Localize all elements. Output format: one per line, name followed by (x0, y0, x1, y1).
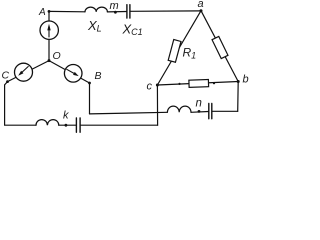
node A junction dot (48, 10, 51, 13)
svg-text:b: b (243, 74, 249, 86)
svg-text:a: a (198, 0, 204, 10)
svg-text:R1: R1 (183, 46, 197, 61)
arrow in source EC (down-left) (18, 67, 28, 76)
wire capacitor k to c riser (81, 124, 158, 126)
triangle side a-c (157, 11, 201, 85)
arrow in source EB (down-right) (67, 69, 79, 76)
node k junction dot (65, 124, 68, 127)
node O junction dot (48, 59, 51, 62)
inductor in B line (167, 106, 191, 112)
wire A top: A node to inductor (49, 10, 85, 12)
node n junction dot (198, 110, 201, 113)
svg-text:m: m (110, 0, 119, 12)
svg-text:C: C (2, 70, 10, 82)
wire node O to node B (49, 61, 90, 83)
junction dot right of resistor c-b (213, 82, 215, 84)
node C junction dot (6, 80, 9, 83)
svg-text:k: k (63, 110, 69, 122)
resistor box on side a-b (212, 36, 228, 58)
wire capacitor to b riser (212, 110, 237, 112)
wire inductor to capacitor k (59, 124, 76, 126)
wire capacitor XC1 to node a (130, 10, 201, 12)
node b junction dot (237, 80, 240, 83)
triangle side c-b (157, 82, 238, 86)
wire A down to source EA (48, 11, 50, 21)
wire riser to node c (156, 85, 158, 125)
svg-text:c: c (147, 81, 153, 93)
capacitor XC1 (127, 5, 130, 18)
svg-text:A: A (38, 7, 46, 18)
wire node B down (89, 83, 91, 114)
junction dot left of resistor c-b (178, 83, 180, 85)
wire B horizontal to inductor n (90, 112, 168, 114)
svg-text:B: B (95, 70, 102, 82)
resistor box on side c-b (189, 79, 209, 87)
wire inductor to capacitor n (191, 111, 208, 114)
wire source EA to node O (48, 39, 50, 60)
wire inductor to capacitor XC1 (107, 11, 126, 13)
wire node O to node C (8, 61, 50, 82)
svg-text:O: O (53, 50, 61, 62)
arrow in source EA (up) (47, 24, 50, 37)
inductor XL (85, 7, 107, 12)
svg-text:XL: XL (87, 18, 102, 34)
capacitor k plates (76, 118, 80, 132)
inductor in C line (36, 120, 59, 126)
svg-text:n: n (196, 97, 202, 109)
wire node C down to bottom (5, 82, 36, 126)
node a junction dot (200, 9, 203, 12)
wire riser to node b (237, 82, 240, 112)
source EA circle (40, 21, 58, 39)
source EB circle (64, 65, 82, 83)
triangle side a-b (201, 11, 238, 82)
svg-text:XC1: XC1 (122, 22, 143, 38)
node m junction dot (114, 11, 117, 14)
resistor R1 box on side a-c (168, 40, 181, 63)
capacitor n plates (209, 104, 212, 119)
node B junction dot (88, 82, 91, 85)
node c junction dot (156, 84, 159, 87)
source EC circle (15, 63, 33, 81)
